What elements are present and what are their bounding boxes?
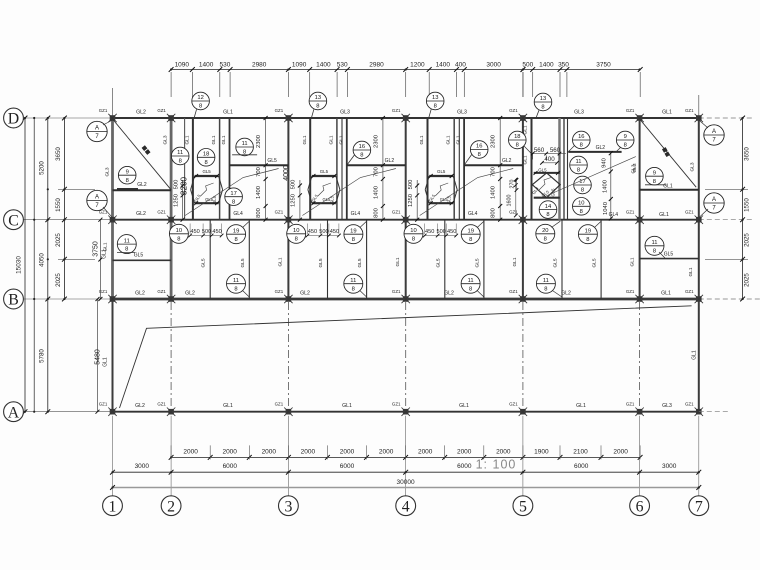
callout 11/8 bay5-6 [570, 156, 588, 174]
svg-text:8: 8 [586, 237, 589, 243]
svg-text:GL1: GL1 [223, 110, 233, 116]
svg-text:2000: 2000 [379, 448, 394, 455]
svg-text:11: 11 [177, 150, 183, 156]
svg-text:6000: 6000 [340, 463, 355, 470]
dims 1400 1040 bay5-6 [603, 180, 610, 215]
svg-text:GZ1: GZ1 [685, 402, 694, 407]
svg-text:GL5: GL5 [357, 258, 363, 267]
svg-text:GL1: GL1 [659, 212, 669, 218]
dims 450 500 450 [188, 224, 223, 238]
svg-text:8: 8 [177, 236, 180, 242]
GL1 vertical labels [302, 135, 345, 144]
svg-text:19: 19 [467, 228, 473, 234]
left vertical dims 1250/500 [408, 180, 419, 222]
callout 20/8 [536, 221, 561, 243]
callout 11/8 lower [344, 274, 367, 297]
svg-text:8: 8 [546, 212, 549, 218]
svg-text:5: 5 [519, 498, 527, 515]
beam GL2 right part [347, 158, 406, 165]
svg-text:GL2: GL2 [136, 110, 146, 116]
svg-text:8: 8 [469, 237, 472, 243]
svg-text:8: 8 [352, 286, 355, 292]
svg-text:GL5: GL5 [267, 158, 277, 164]
svg-text:D: D [8, 111, 19, 128]
svg-text:12: 12 [197, 95, 203, 101]
stair diamond opening [531, 167, 560, 197]
scale label 1:100 [476, 458, 517, 472]
svg-text:GZ1: GZ1 [275, 402, 284, 407]
right vertical dim chain 2300/700/1400/800 [256, 116, 268, 222]
callout 10/8 bay5-6 [573, 198, 591, 216]
svg-text:GL1: GL1 [221, 135, 227, 144]
svg-text:1: 1 [109, 498, 117, 515]
callout 19/8 [461, 221, 484, 244]
svg-text:11: 11 [350, 278, 356, 284]
svg-text:4: 4 [402, 498, 410, 515]
svg-text:A: A [8, 404, 20, 421]
svg-text:500: 500 [202, 229, 211, 235]
svg-text:2000: 2000 [262, 448, 277, 455]
svg-text:GL5: GL5 [447, 195, 452, 204]
svg-text:700: 700 [491, 167, 497, 177]
svg-text:450: 450 [212, 229, 221, 235]
svg-text:1400: 1400 [373, 186, 379, 199]
svg-text:2300: 2300 [373, 135, 379, 148]
left dimension chains [16, 116, 113, 415]
svg-text:8: 8 [653, 179, 656, 185]
svg-text:14: 14 [545, 204, 552, 210]
svg-text:GZ1: GZ1 [626, 210, 635, 215]
svg-text:GL5: GL5 [212, 195, 217, 204]
right vertical dim chain 2300/700/1400/800 [373, 116, 385, 222]
bay 5-6 verticals [532, 118, 568, 220]
svg-text:1250: 1250 [408, 194, 414, 207]
svg-text:500: 500 [437, 229, 446, 235]
callout top-left [287, 224, 306, 243]
svg-text:GL4: GL4 [468, 211, 478, 217]
section circle A/7 lower left [87, 190, 113, 217]
svg-text:1: 100: 1: 100 [476, 458, 517, 472]
grid circle 2 [161, 496, 181, 516]
svg-text:GL1: GL1 [338, 135, 344, 144]
svg-text:2000: 2000 [183, 448, 198, 455]
svg-text:9: 9 [653, 170, 656, 176]
dim 1600 left of grid5 [507, 178, 518, 218]
top callout bubble [309, 92, 327, 118]
leader to GL4 [420, 169, 514, 218]
svg-text:GZ1: GZ1 [509, 289, 518, 294]
GL1 rotated label [395, 257, 401, 266]
callout 18/8 bay2-3 [197, 149, 215, 167]
bay D-C secondary beams at x=288 [310, 118, 347, 220]
svg-text:2025: 2025 [55, 273, 62, 287]
dim 3750 GL1 left [93, 218, 108, 301]
svg-text:8: 8 [580, 209, 583, 215]
svg-text:2000: 2000 [340, 448, 355, 455]
svg-text:GZ1: GZ1 [275, 210, 284, 215]
svg-text:10: 10 [176, 228, 182, 234]
svg-text:450: 450 [308, 229, 317, 235]
column line grid 4 [405, 118, 407, 299]
svg-text:GL1: GL1 [185, 135, 191, 144]
svg-text:560: 560 [550, 147, 561, 154]
grid circle 7 [689, 496, 709, 516]
svg-text:GL2: GL2 [136, 211, 146, 217]
svg-text:GL5: GL5 [592, 258, 598, 267]
column line grid 2 [170, 118, 173, 299]
svg-text:30000: 30000 [397, 479, 415, 486]
grid circle 6 [630, 496, 650, 516]
svg-text:10: 10 [293, 228, 299, 234]
joists GL5 [435, 220, 484, 299]
GL1 rotated label [629, 257, 635, 266]
centerline grid 2 B to A [170, 302, 172, 409]
svg-text:GZ1: GZ1 [509, 108, 518, 113]
svg-text:18: 18 [514, 134, 520, 140]
svg-text:1900: 1900 [534, 448, 549, 455]
stair opening hexagon [308, 169, 340, 205]
svg-text:3750: 3750 [596, 61, 611, 68]
svg-text:GL1: GL1 [328, 135, 334, 144]
centerline grid 5 B to A [522, 302, 524, 409]
svg-text:B: B [8, 292, 19, 309]
centerline grid 3 B to A [287, 302, 289, 409]
svg-text:2025: 2025 [744, 273, 751, 287]
svg-text:400: 400 [544, 156, 555, 163]
svg-text:GL3: GL3 [632, 163, 638, 172]
bay 1-2 D-C: stair ramp diagonal [113, 119, 172, 190]
GL3 vertical labels bay 1-2 [105, 135, 169, 176]
svg-text:700: 700 [373, 167, 379, 177]
row A beam labels [135, 403, 672, 409]
svg-text:GZ1: GZ1 [392, 402, 401, 407]
svg-text:GL1: GL1 [342, 403, 352, 409]
grid circle 1 [103, 496, 123, 516]
svg-text:500: 500 [408, 180, 414, 190]
svg-text:6000: 6000 [223, 463, 238, 470]
GL1 rotated label [512, 257, 518, 266]
svg-text:GL2: GL2 [185, 291, 195, 297]
callout 9/8 bay 6-7 [645, 167, 673, 189]
svg-text:GL5: GL5 [202, 169, 211, 174]
svg-text:GL3: GL3 [163, 135, 169, 144]
svg-text:9: 9 [624, 134, 627, 140]
svg-text:GL5: GL5 [134, 253, 144, 259]
svg-text:940: 940 [602, 158, 608, 168]
svg-text:19: 19 [350, 228, 356, 234]
svg-text:11: 11 [242, 141, 248, 147]
svg-text:A: A [95, 195, 99, 201]
right dimension chain [699, 116, 760, 302]
dim 270 at grid5 [510, 178, 519, 192]
top callout bubble [192, 92, 210, 118]
svg-text:GL1: GL1 [459, 403, 469, 409]
callout 16/8 bay5-6 [568, 131, 590, 152]
grid circle 3 [279, 496, 299, 516]
svg-text:400: 400 [455, 61, 466, 68]
svg-text:1400: 1400 [256, 186, 262, 199]
row A dashed extension right [699, 411, 730, 413]
svg-text:800: 800 [373, 208, 379, 218]
svg-text:GZ1: GZ1 [685, 210, 694, 215]
GL1 labels near grid5 [522, 125, 528, 164]
svg-text:1200: 1200 [410, 61, 425, 68]
dims 560 560 400 [531, 147, 566, 165]
svg-text:GL1: GL1 [102, 249, 108, 259]
grid circle D [4, 108, 24, 128]
leader to GL4 [302, 169, 396, 218]
centerline grid 4 B to A [405, 302, 407, 409]
GZ1 labels [99, 108, 694, 407]
svg-text:3650: 3650 [55, 147, 62, 161]
callout 17/8 bay2-3 [225, 188, 243, 206]
svg-text:1400: 1400 [491, 186, 497, 199]
svg-text:15030: 15030 [16, 256, 23, 274]
GL4 label bay5-6 [546, 157, 637, 219]
mid callout bubble [464, 141, 488, 166]
svg-text:2100: 2100 [573, 448, 588, 455]
svg-text:GL2: GL2 [385, 158, 395, 164]
svg-text:GL2: GL2 [300, 291, 310, 297]
ramp polyline B-A [120, 306, 692, 408]
svg-text:560: 560 [534, 147, 545, 154]
svg-text:8: 8 [581, 188, 584, 194]
column line grid 6 [639, 118, 641, 299]
grid circle B [4, 289, 24, 309]
svg-text:GL5: GL5 [435, 258, 441, 267]
svg-text:1600: 1600 [507, 194, 513, 206]
svg-text:10: 10 [410, 228, 416, 234]
leader to GL4 [185, 169, 279, 218]
svg-text:GL5: GL5 [329, 195, 334, 204]
svg-text:8: 8 [624, 143, 627, 149]
svg-text:GL5: GL5 [318, 258, 324, 267]
svg-text:GL1: GL1 [223, 403, 233, 409]
joists GL5 [553, 220, 602, 299]
svg-text:4050: 4050 [39, 253, 46, 267]
svg-text:GL1: GL1 [103, 357, 109, 367]
svg-text:GZ1: GZ1 [626, 289, 635, 294]
svg-text:11: 11 [651, 240, 657, 246]
svg-text:GL1: GL1 [419, 135, 425, 144]
svg-text:GL1: GL1 [522, 125, 528, 134]
svg-text:GL1: GL1 [629, 257, 635, 266]
svg-text:GL2: GL2 [444, 291, 454, 297]
svg-text:GZ1: GZ1 [626, 108, 635, 113]
svg-text:2025: 2025 [55, 233, 62, 247]
bay 6-7 ramp diagonal [640, 119, 697, 187]
svg-text:800: 800 [256, 208, 262, 218]
svg-text:8: 8 [469, 286, 472, 292]
callout 17/8 bay5-6 [574, 176, 592, 194]
grid circle 4 [396, 496, 416, 516]
svg-text:8: 8 [541, 105, 544, 111]
svg-text:3650: 3650 [744, 147, 751, 161]
column GZ1 markers [108, 114, 703, 416]
svg-text:GL1: GL1 [456, 135, 462, 144]
GL1 vertical labels [185, 135, 228, 144]
svg-text:GL1: GL1 [576, 403, 586, 409]
svg-text:18: 18 [203, 152, 209, 158]
grid circle A [4, 402, 24, 422]
svg-text:10: 10 [578, 201, 584, 207]
svg-text:11: 11 [575, 159, 581, 165]
top callout bubble [426, 92, 444, 118]
left vertical dims 1250/500 [173, 180, 184, 222]
svg-text:17: 17 [230, 191, 236, 197]
svg-text:450: 450 [190, 229, 199, 235]
svg-text:GL1: GL1 [661, 291, 671, 297]
svg-text:8: 8 [126, 178, 129, 184]
svg-text:A: A [712, 197, 716, 203]
svg-text:8: 8 [544, 236, 547, 242]
mid callout bubble [347, 141, 371, 165]
svg-text:GL5: GL5 [664, 251, 674, 257]
bay 5-6 top callout 13/8 [534, 93, 552, 118]
svg-text:GZ1: GZ1 [157, 289, 166, 294]
svg-text:GZ1: GZ1 [99, 108, 108, 113]
column line grid 1 [111, 118, 114, 299]
svg-text:8: 8 [352, 237, 355, 243]
column grid1 B to A [112, 299, 114, 412]
joists GL5 [201, 220, 250, 299]
svg-text:GL5: GL5 [437, 169, 446, 174]
svg-text:GL3: GL3 [105, 167, 111, 176]
svg-text:450: 450 [330, 229, 339, 235]
svg-text:8: 8 [234, 286, 237, 292]
dim 4000 bay2-3 right [283, 165, 290, 181]
section circle A/7 upper right [699, 120, 724, 145]
svg-text:2025: 2025 [744, 233, 751, 247]
svg-text:2980: 2980 [369, 61, 384, 68]
svg-text:GL1: GL1 [211, 135, 217, 144]
svg-text:8: 8 [478, 152, 481, 158]
svg-text:GL4: GL4 [351, 211, 361, 217]
svg-text:GZ1: GZ1 [392, 108, 401, 113]
svg-text:270: 270 [510, 180, 516, 189]
grid circle 5 [513, 496, 533, 516]
svg-text:6: 6 [636, 498, 644, 515]
callout 11/8 lower [461, 274, 484, 297]
row D beam labels [136, 110, 672, 116]
callout 18/8 at grid5 [509, 131, 533, 155]
beam GL2 at y=190 bay 1-2 [113, 189, 172, 191]
svg-text:GL1: GL1 [663, 183, 673, 189]
svg-text:500: 500 [522, 61, 533, 68]
svg-text:3: 3 [284, 498, 292, 515]
stair opening hexagon [191, 169, 223, 205]
svg-text:16: 16 [578, 134, 584, 140]
dims 450 500 450 [423, 224, 458, 238]
svg-text:GL1: GL1 [688, 267, 694, 276]
svg-text:6000: 6000 [457, 463, 472, 470]
right vertical dim chain 2300/700/1400/800 [491, 116, 503, 222]
grid1 extension above D [112, 88, 114, 116]
svg-text:2300: 2300 [256, 135, 262, 148]
svg-text:GZ1: GZ1 [626, 402, 635, 407]
svg-text:GL5: GL5 [474, 258, 480, 267]
stair opening hexagon [425, 169, 457, 205]
svg-text:2000: 2000 [457, 448, 472, 455]
svg-text:2000: 2000 [222, 448, 237, 455]
callout 11/8 bay2-3 left [171, 147, 189, 165]
svg-text:2980: 2980 [252, 61, 267, 68]
section circle A/7 upper left [87, 120, 113, 142]
svg-text:530: 530 [337, 61, 348, 68]
svg-text:1550: 1550 [55, 198, 62, 212]
svg-text:8: 8 [544, 286, 547, 292]
callout 11/8 lower [227, 274, 250, 297]
dims 450 500 450 [306, 224, 341, 238]
svg-text:GL5: GL5 [538, 167, 547, 172]
svg-text:13: 13 [315, 95, 321, 101]
svg-text:1090: 1090 [292, 61, 307, 68]
svg-text:GL1: GL1 [446, 135, 452, 144]
column line grid 5 [522, 118, 524, 299]
svg-text:3750: 3750 [93, 241, 100, 257]
svg-text:GL3: GL3 [340, 110, 350, 116]
svg-text:2300: 2300 [491, 135, 497, 148]
svg-text:2000: 2000 [496, 448, 511, 455]
svg-text:11: 11 [543, 278, 549, 284]
svg-text:1400: 1400 [436, 61, 451, 68]
beam row D (GL2/GL1/GL3) [113, 117, 699, 119]
svg-text:GL2: GL2 [561, 291, 571, 297]
svg-text:GL1: GL1 [512, 257, 518, 266]
svg-text:19: 19 [585, 228, 591, 234]
svg-text:11: 11 [468, 278, 474, 284]
row B beam labels [135, 291, 671, 297]
callout 14/8 bay5-6 [539, 201, 557, 219]
bay 6-7 C-B GL5 beam [640, 236, 699, 276]
svg-text:GL1: GL1 [522, 155, 528, 164]
svg-text:13: 13 [540, 96, 546, 102]
bay 1-2 C-B GL5 beam [102, 235, 171, 261]
svg-text:8: 8 [199, 104, 202, 110]
svg-text:GZ1: GZ1 [685, 108, 694, 113]
beam row A [113, 411, 699, 413]
left vertical dims 1250/500 [291, 180, 302, 222]
svg-text:8: 8 [125, 247, 128, 253]
column grid7 B to A (GL1) [691, 299, 699, 412]
svg-text:1090: 1090 [175, 61, 190, 68]
svg-text:2000: 2000 [613, 448, 628, 455]
svg-text:500: 500 [319, 229, 328, 235]
svg-text:16: 16 [476, 144, 482, 150]
svg-text:GL3: GL3 [690, 162, 696, 171]
svg-text:GZ1: GZ1 [157, 108, 166, 113]
callout top-left [404, 224, 423, 243]
svg-text:3000: 3000 [662, 463, 677, 470]
svg-text:GL1: GL1 [302, 135, 308, 144]
svg-text:GL1: GL1 [395, 257, 401, 266]
callout 19/8 [344, 221, 367, 244]
grid7 extension above D [698, 95, 700, 116]
svg-text:GL3: GL3 [457, 110, 467, 116]
callout 11/8 lower [536, 274, 562, 297]
svg-text:8: 8 [653, 248, 656, 254]
svg-text:8: 8 [232, 199, 235, 205]
svg-text:8: 8 [204, 160, 207, 166]
svg-text:9: 9 [126, 169, 129, 175]
svg-text:GZ1: GZ1 [99, 402, 108, 407]
bay D-C secondary beams at x=406 [428, 118, 465, 220]
svg-text:4000: 4000 [283, 165, 290, 181]
svg-text:6000: 6000 [574, 463, 589, 470]
svg-text:3000: 3000 [486, 61, 501, 68]
svg-text:20: 20 [542, 228, 548, 234]
svg-text:8: 8 [580, 143, 583, 149]
